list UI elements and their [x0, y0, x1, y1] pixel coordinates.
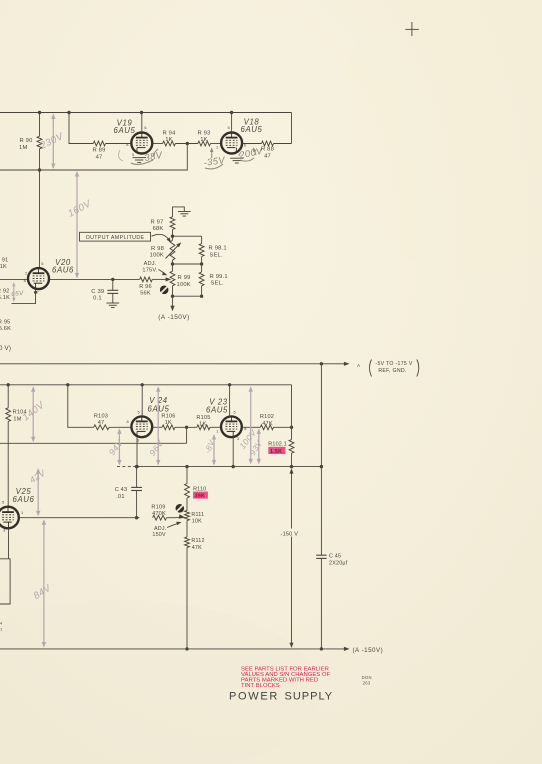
svg-text:263: 263: [363, 681, 371, 686]
svg-text:3: 3: [3, 528, 5, 533]
pencil measure arrow 84V: [43, 521, 45, 647]
svg-text:6AU5: 6AU5: [206, 406, 228, 415]
wire screen bus: [0, 384, 292, 386]
svg-text:R 96: R 96: [139, 284, 152, 290]
wire R103 to V24 grid: [109, 426, 131, 428]
svg-text:R106: R106: [161, 414, 175, 420]
tube V18: [221, 133, 242, 154]
svg-text:1K: 1K: [165, 137, 173, 143]
svg-text:3: 3: [132, 152, 134, 157]
svg-text:47: 47: [264, 153, 271, 159]
wire V20 plate row: [0, 278, 28, 280]
svg-text:1: 1: [21, 510, 23, 515]
junction top bus at R90: [38, 111, 41, 114]
svg-text:R 99.1: R 99.1: [210, 274, 228, 280]
svg-text:R105: R105: [196, 415, 210, 421]
svg-text:150V: 150V: [152, 532, 166, 538]
svg-text:REF, GND.: REF, GND.: [378, 368, 406, 374]
arrowhead bottom bus: [344, 647, 350, 651]
resistor R89: [93, 141, 105, 146]
wire R112 to bottom bus: [186, 548, 188, 649]
svg-text:5: 5: [144, 125, 146, 130]
tube V20: [28, 268, 49, 289]
junction R102.1 at bus: [290, 465, 293, 468]
junction screen bus R103: [66, 383, 69, 386]
wire ref drop from A node: [320, 364, 322, 467]
wire V19 screen branch: [69, 113, 93, 144]
red notice text: [241, 666, 330, 689]
svg-text:R112: R112: [191, 538, 204, 544]
pencil tick above 38V: [153, 149, 158, 156]
svg-text:47K: 47K: [262, 421, 273, 427]
junction screen bus V24: [141, 383, 144, 386]
wire V24 to R106: [153, 426, 163, 428]
wire R97 to R98: [172, 230, 174, 241]
wire R106 to R105: [175, 426, 197, 428]
wire V23 cathode down: [232, 437, 234, 466]
svg-text:6AU6: 6AU6: [52, 266, 74, 275]
wire bus Y5: [0, 442, 187, 444]
wire feedback drop: [40, 144, 188, 171]
junction Y6 right corner: [320, 465, 323, 468]
resistor R102.1: [291, 427, 293, 439]
pencil measure arrow 42V: [37, 469, 39, 515]
tube V19: [131, 133, 152, 154]
tube V24: [131, 416, 152, 437]
wire C45 branch upper: [320, 467, 322, 556]
svg-text:SUPPLY: SUPPLY: [285, 690, 334, 702]
svg-text:R 94: R 94: [162, 131, 176, 137]
svg-text:100K: 100K: [150, 253, 164, 259]
pencil measure arrow 96V: [157, 387, 159, 464]
wire V25 plate row: [19, 517, 139, 519]
wire node drop to Y5: [186, 427, 188, 443]
wire R93 to V18 grid: [211, 143, 221, 145]
junction V23 cathode at bus: [232, 465, 235, 468]
svg-text:100K: 100K: [177, 282, 191, 288]
wire V23 plate lead: [229, 385, 231, 416]
svg-text:8: 8: [126, 142, 128, 147]
wire V19 to R94: [153, 143, 163, 145]
svg-text:470K: 470K: [152, 511, 166, 517]
wire C45 branch lower: [320, 558, 322, 649]
svg-text:3: 3: [237, 436, 239, 441]
svg-text:5: 5: [2, 500, 4, 505]
resistor R93: [198, 141, 211, 146]
svg-text:5: 5: [138, 410, 140, 415]
svg-text:8: 8: [127, 419, 129, 424]
wire R104 to V25: [7, 422, 9, 507]
resistor R112: [185, 537, 190, 548]
junction bottom bus R112: [185, 647, 188, 650]
svg-text:1: 1: [216, 428, 218, 433]
svg-text:R 97: R 97: [150, 219, 163, 225]
pencil measure arrow 160V: [76, 172, 78, 277]
junction screen bus R104: [7, 383, 10, 386]
label -150V: [280, 529, 304, 537]
svg-text:175V.: 175V.: [142, 268, 157, 274]
svg-text:R 95: R 95: [0, 319, 11, 325]
svg-text:1M: 1M: [13, 416, 21, 422]
resistor R103: [94, 425, 110, 430]
svg-text:2X20μf: 2X20μf: [329, 560, 348, 566]
wire R104 branch: [7, 385, 9, 408]
svg-text:POWER: POWER: [229, 690, 279, 702]
svg-text:39K: 39K: [195, 493, 206, 499]
potentiometer R111: [186, 498, 188, 511]
pencil measure arrow 140V: [32, 387, 34, 441]
svg-text:6AU5: 6AU5: [114, 126, 136, 135]
svg-text:.01: .01: [116, 494, 124, 500]
wire cathode bus Y6 dashed part: [117, 466, 134, 468]
svg-text:R 93: R 93: [197, 131, 210, 137]
svg-text:R 92: R 92: [0, 289, 10, 295]
svg-text:(A -150V): (A -150V): [353, 647, 384, 654]
svg-text:1K: 1K: [165, 420, 172, 426]
screwdriver adjust symbol R111: [176, 504, 185, 513]
wire V18 plate lead: [231, 113, 233, 133]
wire R89 to V19 grid: [106, 143, 132, 145]
wire V18 to R88: [243, 143, 262, 145]
svg-text:C 39: C 39: [91, 289, 104, 295]
resistor R102: [260, 425, 273, 430]
svg-text:(A -150V): (A -150V): [158, 314, 190, 321]
potentiometer R99: [170, 271, 175, 286]
potentiometer R98: [170, 240, 175, 260]
wire R110 branch: [186, 467, 188, 484]
resistor R90: [37, 136, 42, 149]
svg-text:1.5K: 1.5K: [270, 449, 282, 455]
svg-text:C 43: C 43: [115, 487, 128, 493]
wire R103 branch: [68, 385, 94, 428]
resistor R98.1 selected: [201, 236, 203, 243]
wire -150V line: [291, 471, 293, 647]
resistor R105: [197, 425, 210, 430]
capacitor C39: [112, 279, 114, 290]
svg-text:-5V TO -175 V: -5V TO -175 V: [375, 361, 412, 367]
wire R102 to drop: [274, 426, 292, 428]
wire V24 plate lead: [141, 385, 143, 416]
junction Y6 R110: [185, 465, 188, 468]
wiper arrow R111: [179, 514, 186, 519]
resistor R96: [140, 277, 153, 282]
wire V23 to R102: [242, 426, 260, 428]
svg-text:OUTPUT AMPLITUDE: OUTPUT AMPLITUDE: [86, 235, 145, 241]
svg-text:47: 47: [98, 420, 105, 426]
svg-text:8: 8: [24, 278, 26, 283]
junction C39: [111, 278, 114, 281]
wire screen bus drop right: [291, 385, 293, 428]
svg-text:R102: R102: [260, 414, 274, 420]
svg-text:1K: 1K: [200, 137, 208, 143]
label box OUTPUT AMPLITUDE: [80, 232, 151, 241]
arrow from output amplitude box: [152, 234, 170, 241]
wire mid tap row: [172, 260, 174, 271]
svg-text:R102.1: R102.1: [268, 442, 287, 448]
svg-text:8: 8: [244, 426, 246, 431]
svg-text:R111: R111: [191, 512, 204, 518]
svg-text:47: 47: [96, 155, 103, 161]
wire V19 plate lead: [141, 113, 143, 133]
wire R111 to R112: [186, 521, 188, 538]
svg-text:SEL.: SEL.: [211, 281, 225, 287]
wire V20 cathode to left: [12, 290, 36, 304]
svg-text:TINT BLOCKS: TINT BLOCKS: [241, 683, 280, 689]
wire cathode bus Y6: [134, 466, 322, 468]
junction screen bus V23: [228, 383, 231, 386]
svg-text:6AU6: 6AU6: [13, 495, 35, 504]
pencil measure arrow 230V: [52, 115, 54, 168]
ground above R97: [173, 207, 185, 217]
junction ref bus right branch: [320, 362, 323, 365]
svg-text:47K: 47K: [192, 545, 202, 551]
svg-text:65V: 65V: [11, 290, 24, 298]
wire right drop to R88: [291, 113, 293, 144]
junction V24 cathode at bus: [135, 465, 138, 468]
svg-text:5: 5: [41, 261, 43, 266]
wire lower bus to left edge: [0, 169, 40, 171]
svg-text:-150 V: -150 V: [281, 532, 299, 538]
arrowhead ref bus A: [344, 362, 350, 366]
pencil measure arrow 100V: [250, 387, 252, 463]
registration crosshair mark: [405, 22, 419, 36]
svg-text:R 98.1: R 98.1: [209, 246, 227, 252]
arrow to A-150V: [170, 306, 174, 312]
wire V24 cathode down: [136, 437, 138, 466]
pencil small arrow V20 cathode: [13, 284, 15, 301]
arrow adj150 to wiper: [167, 523, 180, 528]
capacitor C43: [136, 467, 138, 488]
arrow adj175 to R99 wiper: [159, 270, 166, 275]
wire R90 bottom to lower bus: [39, 149, 41, 170]
svg-text:R103: R103: [94, 414, 108, 420]
junction R102 node: [290, 426, 293, 429]
resistor R106: [162, 425, 175, 430]
component box fragment left edge: [0, 559, 10, 604]
svg-text:0.1: 0.1: [93, 296, 102, 302]
pencil measure arrow 93V: [258, 430, 260, 464]
wire ref bus A: [0, 363, 345, 365]
resistor R104: [6, 408, 11, 422]
svg-text:R 98: R 98: [151, 246, 164, 252]
svg-text:10K: 10K: [192, 519, 202, 525]
svg-text:0 V): 0 V): [0, 345, 11, 352]
svg-text:ADJ.: ADJ.: [154, 526, 166, 532]
red tint block 1.5K: [268, 447, 285, 454]
wiper arrow R99: [152, 278, 166, 280]
svg-text:R 89: R 89: [92, 148, 105, 154]
wire top bus +225V rail: [0, 112, 292, 114]
wire R109 to wiper: [167, 517, 176, 519]
junction R106 R105 node: [185, 426, 188, 429]
capacitor C45: [316, 554, 326, 556]
wire R105 to V23 grid: [210, 426, 221, 428]
svg-text:6.1K: 6.1K: [0, 295, 10, 301]
screwdriver adjust symbol R99: [160, 286, 169, 295]
resistor R99.1 selected: [201, 264, 203, 272]
wire R94 to R93: [175, 143, 197, 145]
svg-text:ADJ.: ADJ.: [144, 261, 157, 267]
wire V25 cathode down to box: [8, 529, 10, 559]
svg-text:R 88: R 88: [261, 147, 274, 153]
svg-text:SEL.: SEL.: [210, 252, 224, 258]
junction top bus at R89 branch: [67, 111, 70, 114]
svg-text:5: 5: [234, 410, 236, 415]
junction R97 R98 node: [171, 235, 174, 238]
junction C43 bottom: [135, 516, 138, 519]
svg-text:R 90: R 90: [19, 138, 32, 144]
resistor R110: [185, 484, 190, 499]
svg-text:R109: R109: [151, 505, 165, 511]
junction bottom bus C45 branch: [320, 647, 323, 650]
ground under C39: [106, 302, 119, 304]
resistor R97: [170, 217, 175, 230]
resistor R94: [163, 141, 176, 146]
svg-text:68K: 68K: [153, 226, 164, 232]
svg-text:1K: 1K: [199, 421, 206, 427]
ground under V19 cathode: [133, 157, 146, 159]
resistor R88: [262, 141, 274, 146]
svg-text:2: 2: [25, 271, 27, 276]
svg-text:5: 5: [228, 125, 230, 130]
svg-text:DON: DON: [362, 675, 372, 680]
wire R90 top lead: [39, 113, 41, 137]
junction top bus at V19 plate: [140, 111, 143, 114]
svg-text:5.6K: 5.6K: [0, 326, 11, 332]
svg-text:R 99: R 99: [178, 275, 191, 281]
svg-text:6AU5: 6AU5: [241, 125, 263, 134]
svg-text:1: 1: [216, 145, 218, 150]
svg-text:56K: 56K: [140, 291, 151, 297]
junction Y6 C43: [135, 465, 138, 468]
wire bottom bus: [0, 648, 345, 650]
svg-text:R 91: R 91: [0, 258, 9, 264]
junction top bus at V18 plate: [230, 111, 233, 114]
red tint block 39K: [193, 492, 208, 499]
svg-text:1M: 1M: [19, 145, 27, 151]
pencil measure arrow 94V: [118, 430, 120, 465]
junction node R94 R93 feedback: [186, 142, 189, 145]
wire to R98.1 top: [173, 235, 202, 237]
resistor R109: [153, 515, 167, 520]
svg-text:C 45: C 45: [329, 554, 341, 560]
svg-text:1K: 1K: [0, 264, 7, 270]
tube V23: [221, 416, 242, 437]
pencil measure arrow -8V: [213, 435, 215, 464]
ground under V18 cathode: [230, 157, 243, 159]
wire R88 to top bus corner: [274, 143, 292, 145]
tube V25: [0, 507, 19, 529]
junction lower bus at R90: [38, 168, 41, 171]
wire bottom tap row: [172, 286, 174, 306]
wire V20 grid riser: [39, 170, 41, 267]
